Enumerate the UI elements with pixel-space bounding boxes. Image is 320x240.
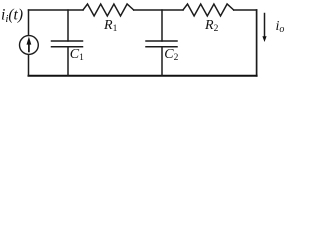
svg-text:R2: R2 <box>204 18 219 34</box>
capacitor C2 bottom stub <box>161 47 163 76</box>
capacitor C2 top stub <box>161 10 163 41</box>
svg-text:C2: C2 <box>164 47 178 63</box>
resistor R2 <box>183 4 234 16</box>
capacitor C2 plates <box>146 40 177 42</box>
wire right edge <box>256 10 258 76</box>
output arrow shaft <box>264 14 266 38</box>
current source arrow <box>27 36 267 52</box>
capacitor C1 bottom stub <box>67 47 69 76</box>
output arrow head <box>262 36 266 42</box>
svg-text:io: io <box>276 19 285 35</box>
wire top-left segment <box>29 9 84 11</box>
wire bottom rail <box>29 75 257 77</box>
wire left top <box>28 10 30 35</box>
capacitor C1 top stub <box>67 10 69 41</box>
resistor R1 <box>83 4 134 16</box>
capacitor C1 plates <box>52 40 83 42</box>
current source circle <box>20 36 39 55</box>
svg-text:ii(t): ii(t) <box>1 7 23 26</box>
svg-text:R1: R1 <box>103 18 118 34</box>
wire left bottom <box>28 55 30 76</box>
svg-text:C1: C1 <box>70 47 84 63</box>
wire top-right segment <box>234 9 257 11</box>
wire top-middle segment <box>134 9 183 11</box>
